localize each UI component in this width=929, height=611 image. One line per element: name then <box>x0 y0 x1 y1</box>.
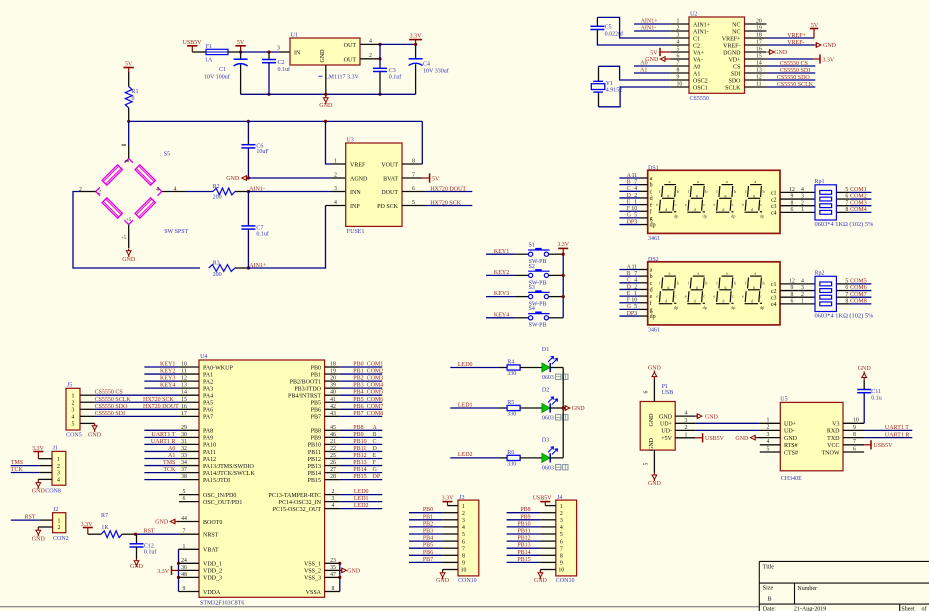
svg-text:DP: DP <box>373 474 381 480</box>
capacitor C2 0.1uf <box>262 52 290 96</box>
ground C11 <box>858 366 872 380</box>
pin 32 U4 PA11 <box>179 446 199 452</box>
wire segment E to DS1 <box>619 199 647 205</box>
wire bridge left loop <box>73 192 200 269</box>
svg-text:NC: NC <box>732 29 740 35</box>
svg-text:39: 39 <box>330 383 336 389</box>
svg-text:COM5: COM5 <box>850 279 867 285</box>
svg-text:2: 2 <box>57 464 60 470</box>
wire net CS5550 SDO <box>95 404 180 410</box>
svg-text:GND: GND <box>705 414 719 420</box>
svg-text:7: 7 <box>634 179 637 185</box>
svg-text:PA8: PA8 <box>203 429 213 435</box>
svg-text:3: 3 <box>57 471 60 477</box>
wire net AIN1+ to U2 <box>634 18 671 24</box>
svg-text:J2: J2 <box>53 507 58 513</box>
svg-text:48: 48 <box>181 572 187 578</box>
svg-text:NC: NC <box>732 22 740 28</box>
svg-text:B: B <box>627 271 631 277</box>
svg-text:PB15: PB15 <box>517 557 530 563</box>
svg-text:KEY1: KEY1 <box>160 362 175 368</box>
svg-text:4: 4 <box>801 279 804 285</box>
svg-text:c1: c1 <box>771 282 777 288</box>
svg-text:D2: D2 <box>542 387 549 393</box>
svg-text:PB11: PB11 <box>518 529 531 535</box>
svg-text:PB4: PB4 <box>353 390 363 396</box>
svg-text:5: 5 <box>72 422 75 428</box>
wire net PB1 to J3 <box>409 514 458 520</box>
svg-text:36: 36 <box>181 565 187 571</box>
svg-text:of: of <box>922 605 927 611</box>
svg-text:e: e <box>742 294 744 299</box>
pin 13 U4 PA3 <box>179 383 199 389</box>
svg-text:c: c <box>760 294 762 299</box>
svg-text:PB6: PB6 <box>311 408 321 414</box>
wire net VREF- ground <box>767 40 837 49</box>
svg-text:A1: A1 <box>693 71 700 77</box>
wire net PB1 COM2 <box>340 369 383 375</box>
svg-text:CON8: CON8 <box>45 489 61 495</box>
capacitor C6 10uF <box>241 121 269 178</box>
svg-text:35: 35 <box>330 565 336 571</box>
svg-text:VDD_2: VDD_2 <box>203 569 222 575</box>
wire net KEY1 to U4 <box>144 362 179 368</box>
svg-text:c: c <box>703 294 705 299</box>
svg-text:3: 3 <box>277 46 280 52</box>
svg-text:a: a <box>650 176 653 182</box>
ground P1 bottom <box>648 473 662 487</box>
svg-text:4: 4 <box>560 525 563 531</box>
connector J3 CON10 <box>458 495 479 584</box>
svg-text:21-Aug-2019: 21-Aug-2019 <box>794 607 826 611</box>
svg-text:Y1: Y1 <box>606 81 613 87</box>
svg-text:10: 10 <box>461 568 467 574</box>
svg-text:PB13: PB13 <box>308 464 321 470</box>
svg-text:C1: C1 <box>219 67 226 73</box>
svg-text:PB13: PB13 <box>353 460 366 466</box>
pin 5 P1 shield bottom <box>644 450 655 473</box>
svg-text:LM1117 3.3V: LM1117 3.3V <box>325 74 360 80</box>
svg-text:USB5V: USB5V <box>705 436 725 442</box>
svg-text:E: E <box>373 453 377 459</box>
pin 6 U3 DOUT net HX720 DOUT <box>402 186 472 192</box>
wire net PB7 to J3 <box>409 557 458 563</box>
svg-text:LED1: LED1 <box>354 496 369 502</box>
svg-text:GND: GND <box>130 564 144 570</box>
wire AIN1+ to U3 INP <box>248 206 345 269</box>
pin 5 U5 CTS stub <box>760 446 781 452</box>
svg-text:OUT: OUT <box>344 43 357 49</box>
svg-text:RST: RST <box>144 529 155 535</box>
wire DS1 c1 to Rp1 <box>780 187 815 193</box>
svg-text:GND: GND <box>226 176 240 182</box>
svg-text:1A: 1A <box>205 58 213 64</box>
pin 45 U4 PB8 <box>325 425 340 431</box>
svg-text:KEY2: KEY2 <box>160 369 175 375</box>
wire UD- P1 to U5 <box>695 425 780 431</box>
svg-text:GND: GND <box>649 437 655 451</box>
wire net LED2 <box>450 452 507 458</box>
svg-text:J5: J5 <box>67 383 72 389</box>
wire net UART1 T <box>864 425 912 431</box>
svg-text:C4: C4 <box>423 62 430 68</box>
svg-text:GND: GND <box>784 436 798 442</box>
wire net COM5 <box>836 279 871 285</box>
svg-text:7: 7 <box>183 529 186 535</box>
svg-text:5: 5 <box>634 213 637 219</box>
svg-text:17: 17 <box>181 411 187 417</box>
svg-text:4: 4 <box>801 187 804 193</box>
wire DS2 c1 to Rp2 <box>780 279 815 285</box>
svg-text:9: 9 <box>560 561 563 567</box>
svg-text:9: 9 <box>791 194 794 200</box>
svg-text:5V: 5V <box>237 40 245 46</box>
pin 7 U3 BVAT power 5V <box>402 173 440 182</box>
svg-text:A0: A0 <box>640 60 647 66</box>
pin 6 U5 TNOW stub <box>0 0 1 1</box>
svg-text:b: b <box>650 183 653 189</box>
svg-text:26: 26 <box>330 460 336 466</box>
svg-text:3.3V: 3.3V <box>32 446 45 452</box>
svg-text:AIN1+: AIN1+ <box>693 22 711 28</box>
svg-text:12: 12 <box>789 187 795 193</box>
led D2 0603 <box>542 387 568 421</box>
wire net COM8 <box>836 298 871 304</box>
svg-text:KEY1: KEY1 <box>494 249 509 255</box>
svg-text:PA1: PA1 <box>203 372 213 378</box>
svg-text:USB5V: USB5V <box>873 443 893 449</box>
wire segment C to DS2 <box>619 278 647 284</box>
capacitor C11 0.1u <box>857 380 882 424</box>
svg-text:PB9: PB9 <box>520 514 530 520</box>
svg-text:S2: S2 <box>529 264 535 270</box>
svg-text:8: 8 <box>462 554 465 560</box>
svg-text:OSC2: OSC2 <box>693 78 708 84</box>
svg-text:PB0: PB0 <box>423 507 433 513</box>
switch S1 SW-PB <box>528 243 550 266</box>
svg-text:Rp2: Rp2 <box>815 270 825 276</box>
wire net LED0 <box>450 362 507 368</box>
svg-text:e: e <box>713 202 715 207</box>
svg-text:PB9: PB9 <box>311 436 321 442</box>
svg-text:5V: 5V <box>125 61 133 67</box>
svg-text:a: a <box>726 271 728 276</box>
svg-text:dp: dp <box>650 314 656 320</box>
pin 4 U4 PC15 <box>325 503 340 509</box>
svg-text:CON5: CON5 <box>66 433 82 439</box>
svg-text:GND: GND <box>436 578 450 584</box>
svg-text:UART1 T: UART1 T <box>885 425 909 431</box>
svg-text:GND: GND <box>88 433 102 439</box>
ground tap AGND <box>226 176 250 183</box>
svg-text:PB1: PB1 <box>353 369 363 375</box>
svg-text:CS5550 SCLK: CS5550 SCLK <box>95 397 132 403</box>
svg-text:24: 24 <box>181 558 187 564</box>
wire C5 to pin C1 <box>597 17 670 38</box>
wire U1 output node <box>379 44 381 68</box>
svg-text:c3: c3 <box>771 295 777 301</box>
svg-text:0.022uf: 0.022uf <box>605 30 624 37</box>
svg-text:3: 3 <box>801 194 804 200</box>
pin 22 U4 PB11 <box>325 446 340 452</box>
svg-text:e: e <box>656 202 658 207</box>
svg-text:UART1 R: UART1 R <box>885 432 909 438</box>
power port USB5V <box>182 40 202 52</box>
svg-text:COM1: COM1 <box>850 187 867 193</box>
wire net LED0 from U4 <box>340 489 382 495</box>
svg-text:USB5V: USB5V <box>533 495 553 501</box>
svg-text:CTS#: CTS# <box>784 450 798 456</box>
svg-text:4: 4 <box>156 187 159 193</box>
svg-text:3.3V: 3.3V <box>81 522 94 528</box>
wire UD+ P1 to U5 <box>695 418 780 424</box>
wire net PB4 COM5 <box>340 390 383 396</box>
pin 44 U4 BOOT0 ground <box>155 516 199 526</box>
pin 3 U5 GND <box>735 432 780 442</box>
svg-text:4: 4 <box>57 478 60 484</box>
svg-text:30: 30 <box>181 432 187 438</box>
wire fuse to 5V node <box>228 51 241 53</box>
svg-text:29: 29 <box>181 425 187 431</box>
svg-text:A: A <box>373 425 378 431</box>
svg-text:IN: IN <box>294 51 301 57</box>
svg-text:PB1: PB1 <box>311 372 321 378</box>
svg-text:INP: INP <box>350 204 360 210</box>
svg-text:10: 10 <box>631 206 637 212</box>
pin 5 U3 PD SCK net HX720 SCK <box>402 200 472 206</box>
wire net TMS <box>11 460 52 466</box>
svg-text:PB2: PB2 <box>353 376 363 382</box>
capacitor C4 10V 330uf <box>409 44 449 94</box>
svg-text:a: a <box>697 179 699 184</box>
wire power ground rail <box>241 93 416 96</box>
wire S2 to 3.3V rail <box>549 274 564 276</box>
svg-text:PA13/JTMS/SWDIO: PA13/JTMS/SWDIO <box>203 464 254 470</box>
bridge pin marks <box>121 145 132 241</box>
connector P1 USB <box>640 384 695 451</box>
display DS2 3461 <box>648 257 780 334</box>
wire net PB6 COM7 <box>340 404 383 410</box>
wire segment G to DS2 <box>619 304 647 310</box>
svg-text:5: 5 <box>462 532 465 538</box>
svg-text:c: c <box>650 189 653 195</box>
svg-text:PB14: PB14 <box>353 467 366 473</box>
svg-text:VCC: VCC <box>827 443 839 449</box>
pin 21 U4 PB10 <box>325 439 340 445</box>
svg-text:COM2: COM2 <box>367 369 384 375</box>
svg-text:PB10: PB10 <box>517 521 530 527</box>
svg-text:GND: GND <box>32 536 46 542</box>
wire U4 PA11 <box>144 446 179 452</box>
svg-text:e: e <box>742 202 744 207</box>
svg-text:R3: R3 <box>213 260 220 266</box>
svg-text:GND: GND <box>534 578 548 584</box>
pin 29 U4 PA8 <box>179 425 199 431</box>
svg-text:PB8: PB8 <box>311 429 321 435</box>
svg-text:c4: c4 <box>771 302 777 308</box>
svg-text:c: c <box>675 294 677 299</box>
svg-text:R2: R2 <box>213 184 220 190</box>
svg-text:E: E <box>627 199 631 205</box>
wire segment A to DS2 <box>619 264 647 270</box>
svg-text:8: 8 <box>791 292 794 298</box>
svg-text:a: a <box>697 271 699 276</box>
svg-text:CS: CS <box>733 64 740 70</box>
wire net A0 to U2 <box>634 60 671 66</box>
pin 27 U4 PB14 <box>325 467 340 473</box>
svg-text:0.1uf: 0.1uf <box>256 230 269 237</box>
capacitor C1 10V 100uf <box>204 52 248 94</box>
svg-text:GND: GND <box>735 436 749 442</box>
svg-text:6: 6 <box>791 207 794 213</box>
svg-text:PB7: PB7 <box>423 557 433 563</box>
svg-text:GND: GND <box>648 365 662 371</box>
power port 3.3V output <box>409 33 422 44</box>
svg-text:5: 5 <box>845 279 848 285</box>
svg-text:3.3V: 3.3V <box>157 569 170 575</box>
svg-text:e: e <box>650 294 653 300</box>
svg-text:+5: +5 <box>121 236 127 241</box>
svg-text:c: c <box>650 281 653 287</box>
wire segment DP to DS1 <box>619 219 647 225</box>
svg-text:8: 8 <box>791 200 794 206</box>
svg-text:DS1: DS1 <box>648 166 659 172</box>
svg-text:e: e <box>713 294 715 299</box>
svg-text:41: 41 <box>330 397 336 403</box>
svg-text:PB3: PB3 <box>353 383 363 389</box>
wire DS2 c3 to Rp2 <box>780 292 815 298</box>
svg-text:CS5550 CS: CS5550 CS <box>780 61 808 67</box>
pin 40 U4 PB4/INTRST <box>325 390 340 396</box>
svg-text:4: 4 <box>369 38 372 44</box>
svg-text:LED0: LED0 <box>354 489 369 495</box>
svg-text:c: c <box>732 202 734 207</box>
svg-text:20: 20 <box>330 376 336 382</box>
svg-text:c4: c4 <box>771 211 777 217</box>
wire DS2 c4 to Rp2 <box>780 298 815 304</box>
svg-text:Date:: Date: <box>763 606 776 611</box>
svg-text:PC14-OSC32_IN: PC14-OSC32_IN <box>279 500 322 506</box>
pin 16 U4 PA6 <box>179 404 199 410</box>
svg-text:10V 100uf: 10V 100uf <box>204 74 230 81</box>
svg-text:PB13: PB13 <box>517 543 530 549</box>
svg-text:RTS#: RTS# <box>784 443 798 449</box>
svg-text:KEY4: KEY4 <box>494 312 509 318</box>
svg-text:PB15: PB15 <box>353 474 366 480</box>
svg-text:GND: GND <box>858 366 872 372</box>
pin 42 U4 PB6 <box>325 404 340 410</box>
wire net PB7 COM8 <box>340 411 383 417</box>
wire segment F to DS2 <box>619 298 647 304</box>
wire 3.3V rail <box>380 43 417 46</box>
resistor R4 330 <box>507 360 542 377</box>
pin 20 U4 PB2/BOOT1 <box>325 376 340 382</box>
svg-text:VDDA: VDDA <box>203 590 221 596</box>
crystal Y1 4.9152 <box>591 66 622 107</box>
svg-text:UART1 R: UART1 R <box>151 439 175 445</box>
svg-text:U3: U3 <box>346 137 353 143</box>
svg-text:31: 31 <box>181 439 187 445</box>
wire net COM2 <box>836 194 871 200</box>
svg-text:a: a <box>669 179 671 184</box>
svg-text:CON10: CON10 <box>556 578 575 584</box>
power port USB5V J4 <box>533 495 553 505</box>
svg-text:COM5: COM5 <box>367 390 384 396</box>
svg-text:2: 2 <box>560 511 563 517</box>
svg-text:B: B <box>627 179 631 185</box>
svg-text:SDI: SDI <box>731 71 741 77</box>
svg-text:VDD_3: VDD_3 <box>203 576 222 582</box>
svg-text:PB3/JTDO: PB3/JTDO <box>294 386 321 392</box>
wire net COM4 <box>836 207 871 213</box>
svg-text:U2: U2 <box>690 11 697 17</box>
svg-text:4: 4 <box>462 525 465 531</box>
wire VDD rail U4 <box>177 549 180 591</box>
resistor R7 1K <box>88 513 137 538</box>
wire segment D to DS2 <box>619 284 647 290</box>
wire net AIN1- to U2 <box>634 25 671 31</box>
wire net CS5550 SCLK <box>95 397 179 403</box>
svg-text:37: 37 <box>181 467 187 473</box>
svg-text:VREF-: VREF- <box>723 43 740 49</box>
svg-text:6: 6 <box>644 390 650 393</box>
svg-text:RST: RST <box>25 515 36 521</box>
fuse F1 1A <box>205 44 228 64</box>
svg-text:PB3: PB3 <box>423 529 433 535</box>
svg-text:D3: D3 <box>542 437 549 443</box>
svg-text:PB2: PB2 <box>423 521 433 527</box>
svg-text:40: 40 <box>330 390 336 396</box>
svg-text:3: 3 <box>634 219 637 225</box>
svg-text:PB15: PB15 <box>308 478 321 484</box>
svg-text:5: 5 <box>845 187 848 193</box>
node bridge rail junction <box>127 120 130 123</box>
svg-text:0603: 0603 <box>542 466 554 472</box>
svg-text:VREF: VREF <box>350 162 366 168</box>
switch S3 SW-PB <box>528 285 550 308</box>
svg-text:7: 7 <box>560 546 563 552</box>
svg-text:0.1u: 0.1u <box>871 396 882 402</box>
svg-text:6: 6 <box>845 194 848 200</box>
svg-text:PA11: PA11 <box>203 450 216 456</box>
svg-text:GND: GND <box>659 414 673 420</box>
svg-text:NRST: NRST <box>203 533 219 539</box>
svg-text:BOOT0: BOOT0 <box>203 520 222 526</box>
svg-text:47: 47 <box>330 572 336 578</box>
svg-text:38: 38 <box>181 474 187 480</box>
wire net PB14 to J4 <box>507 550 556 556</box>
pin 1 U4 VDD <box>179 544 200 550</box>
svg-text:c2: c2 <box>771 289 777 295</box>
svg-text:CS5550: CS5550 <box>690 96 709 102</box>
wire segment F to DS1 <box>619 206 647 212</box>
wire net KEY4 <box>486 312 528 318</box>
svg-text:PA2: PA2 <box>203 379 213 385</box>
pin 5 J5 ground <box>80 423 102 438</box>
svg-text:PB7: PB7 <box>353 411 363 417</box>
svg-text:23: 23 <box>330 558 336 564</box>
wire net TCK <box>11 467 52 473</box>
wire VREF rail <box>129 120 423 123</box>
svg-text:GND: GND <box>648 481 662 487</box>
pin 31 U4 PA10 <box>179 439 199 445</box>
svg-text:G: G <box>627 213 632 219</box>
svg-text:R4: R4 <box>507 360 514 366</box>
svg-text:SW SPST: SW SPST <box>164 229 188 235</box>
svg-text:8: 8 <box>560 554 563 560</box>
svg-text:J3: J3 <box>459 495 464 501</box>
svg-text:CH340E: CH340E <box>781 476 802 482</box>
